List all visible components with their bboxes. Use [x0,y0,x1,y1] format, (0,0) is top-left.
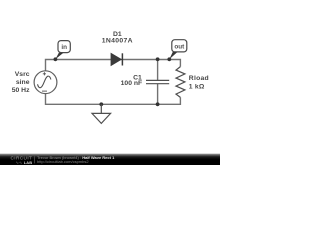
capacitor C1 top plate [146,79,169,81]
ground stem [100,104,102,113]
svg-text:1N4007A: 1N4007A [102,37,133,44]
flag in box [58,41,70,53]
Vsrc plus sign [43,72,46,75]
source V1 Vsrc circle [34,71,57,94]
junction dot node out [167,57,171,61]
junction dot node in [54,57,58,61]
footer separator [34,156,36,164]
svg-text:Rload: Rload [189,75,209,82]
junction dot capacitor top [156,57,160,61]
diode D1 cathode bar [121,53,123,65]
svg-text:Vsrc: Vsrc [15,71,30,78]
resistor Rload zigzag [176,67,185,98]
svg-text:sine: sine [16,79,30,86]
Vsrc minus sign [42,90,47,92]
svg-text:100 nF: 100 nF [121,80,143,87]
junction dot capacitor bottom [156,102,160,106]
flag in pointer [55,53,63,60]
svg-text:1 kΩ: 1 kΩ [189,83,205,90]
svg-text:in: in [61,44,67,51]
junction dot ground [99,102,103,106]
svg-text:out: out [174,43,185,50]
footer bar [0,154,220,165]
wire capacitor branch top [157,60,159,81]
svg-text:∿∿ LAB: ∿∿ LAB [16,160,33,165]
flag out box [172,40,187,52]
wire top (node in/out) [46,60,181,71]
svg-text:50 Hz: 50 Hz [12,87,30,94]
ground triangle [92,113,111,123]
capacitor C1 bottom plate [146,83,169,85]
svg-text:http://circuitlab.com/cspmbs2: http://circuitlab.com/cspmbs2 [37,159,89,164]
wire bottom (ground net) [46,94,181,105]
diode D1 triangle [111,53,121,65]
wire capacitor branch bottom [157,84,159,104]
Vsrc sine squiggle [38,76,51,88]
flag out pointer [169,52,177,59]
